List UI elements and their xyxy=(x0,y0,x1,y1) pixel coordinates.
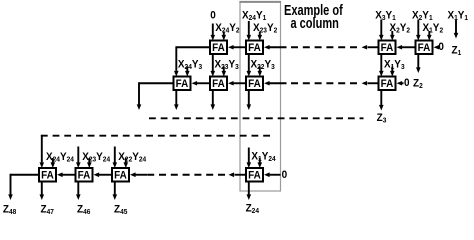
svg-text:FA: FA xyxy=(176,79,189,91)
svg-text:FA: FA xyxy=(248,79,261,91)
wire X1Y24 into FA r24e top-right xyxy=(258,158,263,168)
label X1Y2 xyxy=(423,23,444,35)
output label Z3 xyxy=(377,113,387,125)
svg-text:FA: FA xyxy=(212,79,225,91)
output label Z47 xyxy=(41,204,55,216)
full adder FA r1a (column 24, row y2) xyxy=(210,41,227,55)
output label Z46 xyxy=(77,204,91,216)
carry wire FA r2a wrap-around down to omitted row xyxy=(137,82,173,110)
svg-text:FA: FA xyxy=(212,43,225,55)
sum wire FA r2c down to omitted row xyxy=(247,91,252,110)
svg-text:FA: FA xyxy=(381,79,394,91)
svg-text:FA: FA xyxy=(381,43,394,55)
wire 0 into FA r24e right xyxy=(264,172,281,177)
full adder FA r2d (column 2) xyxy=(379,77,396,91)
carry wire FA r2b to FA r2a xyxy=(192,81,210,86)
caption "Example of" xyxy=(284,2,343,19)
label X2Y1 xyxy=(412,10,433,22)
label X24Y3 xyxy=(178,59,202,71)
sum wire FA r1d down to Z2 xyxy=(416,55,421,73)
label X24Y1 xyxy=(242,10,266,22)
caption "a column" xyxy=(291,14,339,31)
svg-text:0: 0 xyxy=(282,170,288,181)
label X3Y1 xyxy=(375,10,396,22)
wire X2Y1 into FA r1d top-left xyxy=(416,20,421,41)
output label Z45 xyxy=(114,204,128,216)
wire X3Y1 into FA r1c top-left xyxy=(379,20,384,41)
highlighted example column outline xyxy=(239,2,281,191)
svg-text:0: 0 xyxy=(438,42,444,53)
carry wire FA r24a down to Z48 xyxy=(8,174,38,200)
carry wire FA r1c leftward (arrow + dashes) to FA r1b xyxy=(264,45,378,50)
label 0 (carry-in of FA r1a) xyxy=(210,10,216,21)
svg-text:FA: FA xyxy=(114,170,127,182)
sum wire FA r24c down to Z45 xyxy=(113,183,118,201)
sum wire FA r2a down to omitted row xyxy=(174,91,179,110)
sum wire FA r24a down to Z47 xyxy=(40,183,45,201)
label X22Y24 xyxy=(118,152,146,164)
sum wire from omitted row into FA r24e top-left xyxy=(247,148,252,169)
output label Z2 xyxy=(413,78,423,90)
carry wire FA r1a wrap-around down into FA r2a xyxy=(174,46,209,76)
svg-text:FA: FA xyxy=(248,170,261,182)
sum wire FA r1c down into FA r2d xyxy=(379,55,384,77)
wire 0 into FA r1d right xyxy=(434,45,440,50)
wire X2Y2 into FA r1c top-right xyxy=(390,31,395,41)
full adder FA r24c (column 46) xyxy=(112,168,129,182)
sum wire FA r2b down to omitted row xyxy=(211,91,216,110)
output label Z24 xyxy=(246,203,260,215)
sum wire FA r1a down into FA r2b xyxy=(211,55,216,77)
full adder FA r24a (column 48) xyxy=(39,168,56,182)
wire X24Y1 into FA r1b top-left xyxy=(247,21,252,41)
full adder FA r2b (column 24) xyxy=(210,77,227,91)
wire X1Y2 into FA r1d top-right xyxy=(427,31,432,41)
svg-text:0: 0 xyxy=(404,78,410,89)
sum wire FA r24e down to Z24 xyxy=(247,183,252,201)
sum wire FA r24b down to Z46 xyxy=(76,183,81,201)
dashed continuation line (omitted rows, upper) xyxy=(149,117,364,119)
label 0 (carry-in of FA r2d) xyxy=(404,78,410,89)
wire X24Y24 into FA r24a top-right xyxy=(51,158,56,168)
label X24Y2 xyxy=(215,23,239,35)
full adder FA r2a (column 25) xyxy=(174,77,191,91)
output label Z1 xyxy=(452,45,462,57)
wire 0 into FA r1a top-left xyxy=(211,24,216,41)
carry wire FA r24b to FA r24a xyxy=(57,172,75,177)
label X24Y24 xyxy=(46,152,74,164)
sum wire from omitted row into FA r24b top-left xyxy=(76,147,81,169)
label X2Y2 xyxy=(389,23,410,35)
label X23Y3 xyxy=(214,59,238,71)
carry wire FA r24c to FA r24b xyxy=(94,172,112,177)
full adder FA r24e (column 24, example column) xyxy=(246,168,263,182)
sum wire from omitted row into FA r24c top-left xyxy=(113,147,118,169)
wire X22Y3 into FA r2c top-right xyxy=(258,67,263,77)
wire X1Y1 down to Z1 xyxy=(454,20,459,39)
full adder FA r1d (column 2) xyxy=(416,41,433,55)
label X23Y24 xyxy=(82,152,110,164)
full adder FA r24b (column 47) xyxy=(76,168,93,182)
svg-text:FA: FA xyxy=(418,43,431,55)
carry wire FA r24e leftward (arrow + dashes) to FA r24c xyxy=(130,172,245,177)
carry wire FA r2d leftward (arrow + dashes) to FA r2c xyxy=(264,81,378,86)
svg-text:FA: FA xyxy=(248,43,261,55)
label 0 (carry-in of FA r1d) xyxy=(438,42,444,53)
wire 0 into FA r2d right xyxy=(397,81,404,86)
dashed carry wire from omitted rows into FA r24a xyxy=(40,135,271,168)
full adder FA r2c (column 23, example column) xyxy=(246,77,263,91)
wire X23Y3 into FA r2b top-right xyxy=(222,67,227,77)
wire X24Y2 into FA r1a top-right xyxy=(222,32,227,41)
sum wire FA r1b down into FA r2c xyxy=(247,55,252,77)
carry wire FA r1d to FA r1c xyxy=(397,45,415,50)
wire X23Y24 into FA r24b top-right xyxy=(87,158,92,168)
label X1Y3 xyxy=(384,59,405,71)
label X23Y2 xyxy=(253,23,277,35)
output label Z48 xyxy=(3,204,17,216)
wire X1Y3 into FA r2d top-right xyxy=(390,67,395,77)
label X1Y1 xyxy=(447,10,468,22)
wire X24Y3 into FA r2a top-right xyxy=(185,67,190,77)
svg-text:FA: FA xyxy=(78,170,91,182)
svg-text:a column: a column xyxy=(291,14,339,31)
svg-text:FA: FA xyxy=(41,170,54,182)
wire X22Y24 into FA r24c top-right xyxy=(124,158,129,168)
sum wire FA r2d down to Z3 xyxy=(379,91,384,111)
carry wire FA r2c to FA r2b xyxy=(228,81,245,86)
label X1Y24 xyxy=(251,151,275,163)
wire X23Y2 into FA r1b top-right xyxy=(258,32,263,41)
svg-text:0: 0 xyxy=(210,10,216,21)
full adder FA r1c (column 3) xyxy=(379,41,396,55)
label 0 (carry-in of FA r24e) xyxy=(282,170,288,181)
label X22Y3 xyxy=(251,59,275,71)
carry wire FA r1b to FA r1a xyxy=(228,45,245,50)
full adder FA r1b (column 23, example column) xyxy=(246,41,263,55)
